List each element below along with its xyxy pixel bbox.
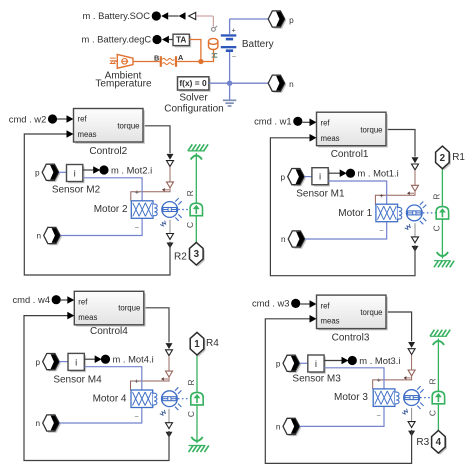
dashed shaft coupling motor 1 (423, 212, 436, 214)
svg-text:p: p (289, 16, 294, 25)
svg-text:+: + (135, 188, 139, 197)
svg-text:cmd . w2: cmd . w2 (9, 113, 47, 124)
svg-text:R1: R1 (452, 152, 465, 163)
signal tag m.Battery.SOC (82, 10, 160, 21)
wire speed feedback to Control2 meas (24, 130, 170, 275)
signal tag cmd.w3 (252, 298, 300, 309)
wire sensor meas to tag m.Mot4.i (84, 355, 110, 364)
svg-text:Configuration: Configuration (164, 103, 223, 114)
ambient temperature source block (117, 54, 133, 68)
svg-text:m . Mot4.i: m . Mot4.i (113, 354, 154, 365)
wire sensor meas to tag m.Mot2.i (83, 165, 109, 174)
svg-text:C: C (185, 222, 195, 228)
wire p to Sensor M4 (59, 361, 68, 363)
svg-text:i: i (315, 359, 317, 370)
svg-text:m . Battery.degC: m . Battery.degC (82, 34, 152, 45)
svg-text:R: R (427, 378, 437, 384)
svg-text:p: p (276, 360, 281, 369)
signal tag cmd.w4 (12, 294, 60, 305)
svg-text:n: n (36, 419, 41, 428)
svg-text:+: + (231, 26, 235, 35)
svg-text:p: p (36, 358, 41, 367)
wire battery positive to port p (230, 18, 269, 20)
propeller connector hexagon 2 (436, 146, 451, 170)
mechanical rotational reference (motor 4) (189, 437, 209, 452)
dashed shaft coupling motor 3 (420, 397, 432, 399)
label Ambient Temperature (95, 70, 152, 89)
wire converter to Motor 1 torque port (375, 191, 415, 204)
connection port p (motor 4) (43, 354, 61, 372)
wire Control2 torque to converter (145, 126, 170, 153)
thermal wire ambient to conduction B (133, 61, 160, 63)
wire junction to electrical reference (229, 83, 231, 100)
svg-text:m . Battery.SOC: m . Battery.SOC (82, 10, 150, 21)
svg-text:torque: torque (360, 125, 382, 134)
svg-text:1: 1 (194, 339, 200, 350)
svg-text:torque: torque (360, 308, 382, 317)
svg-text:cmd . w3: cmd . w3 (252, 298, 290, 309)
wire converter to Motor 2 torque port (131, 188, 170, 201)
temperature sensor block TA (173, 34, 191, 47)
ps-simulink converter arrows (speed) (166, 409, 173, 438)
label Solver Configuration (164, 93, 223, 115)
wire Control1 torque to converter (388, 130, 415, 157)
svg-text:Control1: Control1 (331, 149, 369, 160)
wheel-axle block (motor 2) (190, 203, 202, 216)
svg-text:Solver: Solver (179, 93, 208, 104)
signal tag cmd.w2 (9, 113, 57, 124)
svg-text:ref: ref (78, 298, 88, 307)
svg-text:B: B (154, 54, 159, 63)
svg-text:Temperature: Temperature (95, 79, 152, 90)
svg-text:–: – (377, 412, 381, 419)
connection port n (motor 1) (288, 231, 306, 249)
svg-text:p: p (35, 169, 40, 178)
wire sensor to Motor 4 positive terminal (84, 367, 142, 391)
wire cmd to Control4 ref (61, 296, 75, 304)
motor speed port marker w (405, 224, 412, 230)
current sensor block Sensor M4 (68, 353, 86, 372)
simulink-ps converter arrows (torque) (408, 342, 415, 376)
motor U4 (dc motor icon) (131, 387, 181, 410)
controller block Control2 (74, 109, 145, 144)
wire cmd to Control2 ref (57, 115, 73, 123)
svg-text:Motor 1: Motor 1 (338, 208, 372, 219)
wire solver to port n (209, 82, 269, 84)
controller block Control1 (317, 112, 388, 147)
svg-text:torque: torque (118, 304, 140, 313)
current sensor block Sensor M2 (67, 165, 85, 184)
mechanical rotational reference (motor 3) (430, 330, 450, 345)
svg-text:Sensor M2: Sensor M2 (52, 185, 101, 196)
electrical reference ground (223, 100, 236, 106)
wire Control4 torque to converter (146, 308, 169, 343)
svg-text:R: R (186, 379, 196, 385)
svg-text:m . Mot1.i: m . Mot1.i (358, 168, 399, 179)
svg-text:n: n (281, 235, 286, 244)
svg-text:i: i (319, 172, 321, 183)
connection port p (top) (268, 11, 286, 29)
wire n to Motor 3 negative terminal (300, 406, 384, 426)
svg-text:C: C (431, 225, 441, 231)
ps-simulink converter arrows (speed) (412, 223, 419, 252)
connection port p (motor 1) (288, 169, 306, 187)
svg-text:TA: TA (176, 34, 186, 44)
svg-text:meas: meas (321, 134, 340, 143)
wire sensor to Motor 2 positive terminal (83, 178, 142, 201)
motor speed port marker w (402, 409, 409, 415)
rotational shaft net (motor 1) (441, 169, 443, 259)
torque port marker (162, 188, 169, 192)
rotational shaft net (motor 2) (195, 153, 197, 242)
svg-text:Battery: Battery (242, 39, 274, 50)
dashed shaft coupling motor 2 (178, 209, 190, 211)
wire sensor to Motor 3 positive terminal (324, 368, 384, 390)
wire cmd to Control3 ref (300, 300, 316, 308)
svg-text:meas: meas (78, 313, 97, 322)
svg-text:f(x) = 0: f(x) = 0 (179, 78, 207, 88)
svg-text:R2: R2 (174, 252, 187, 263)
torque port marker (407, 191, 414, 195)
conductive heat transfer element B-A (161, 56, 176, 67)
connection port n (motor 2) (44, 227, 62, 245)
wire speed feedback to Control3 meas (265, 315, 411, 463)
simulink-ps converter arrows (torque) (167, 154, 174, 188)
wire cmd to Control1 ref (302, 119, 316, 127)
svg-text:Control4: Control4 (90, 326, 128, 337)
wire sensor meas to tag m.Mot1.i (328, 169, 355, 178)
motor speed port marker w (160, 221, 167, 227)
svg-text:Control2: Control2 (89, 146, 127, 157)
svg-text:ref: ref (321, 301, 331, 310)
wire p to Sensor M3 (300, 362, 308, 364)
svg-text:Motor 3: Motor 3 (334, 392, 368, 403)
svg-text:R: R (185, 190, 195, 196)
svg-text:+: + (379, 191, 383, 200)
simulink-ps converter arrows (torque) (412, 157, 419, 191)
svg-text:n: n (37, 232, 42, 241)
battery cell symbol (221, 19, 237, 83)
wheel-axle block (motor 1) (436, 207, 448, 220)
torque port marker (161, 377, 168, 381)
torque port marker (404, 376, 411, 380)
svg-text:2: 2 (440, 153, 446, 164)
wire SOC with converter arrows (161, 12, 213, 26)
ps-simulink converter arrows (speed) (408, 408, 415, 437)
orange thermal wire TA to junction (189, 40, 201, 62)
wire speed feedback to Control1 meas (270, 134, 415, 276)
svg-text:+: + (134, 377, 138, 386)
propeller connector hexagon 3 (190, 242, 205, 266)
svg-text:m . Mot2.i: m . Mot2.i (111, 164, 152, 175)
connection port n (motor 3) (283, 418, 301, 436)
svg-text:R: R (431, 194, 441, 200)
svg-text:ref: ref (78, 115, 88, 124)
current sensor block Sensor M3 (308, 355, 326, 374)
wire sensor to Motor 1 positive terminal (328, 181, 387, 205)
mechanical rotational reference (motor 2) (188, 144, 208, 159)
motor U1 (dc motor icon) (376, 202, 426, 225)
svg-text:i: i (75, 357, 77, 368)
thermal wire A to thermal mass (177, 49, 213, 61)
wire n to Motor 1 negative terminal (305, 221, 387, 239)
wire speed feedback to Control4 meas (24, 312, 169, 461)
svg-text:p: p (281, 173, 286, 182)
wire converter to Motor 3 torque port (373, 376, 412, 389)
svg-text:–: – (135, 224, 139, 231)
controller block Control4 (74, 291, 145, 326)
thermal mass block (cylinder) (209, 38, 218, 49)
svg-text:m . Mot3.i: m . Mot3.i (359, 355, 400, 366)
simulink-ps converter arrows (torque) (166, 343, 173, 377)
svg-text:4: 4 (436, 437, 442, 448)
electrical junction node (227, 81, 232, 86)
ps-simulink converter arrows (speed) (167, 220, 174, 249)
svg-text:Motor 4: Motor 4 (93, 393, 127, 404)
svg-text:Sensor M1: Sensor M1 (296, 188, 345, 199)
svg-text:ref: ref (321, 118, 331, 127)
wire p to Sensor M2 (59, 171, 67, 173)
svg-text:Motor 2: Motor 2 (94, 204, 128, 215)
svg-text:–: – (380, 228, 384, 235)
wheel-axle block (motor 3) (432, 391, 444, 404)
svg-text:cmd . w4: cmd . w4 (12, 294, 50, 305)
svg-text:Control3: Control3 (332, 333, 370, 344)
svg-text:R4: R4 (206, 338, 219, 349)
wire p to Sensor M1 (304, 176, 312, 178)
rotational shaft net (motor 3) (437, 339, 439, 431)
svg-text:meas: meas (78, 130, 97, 139)
rotational shaft net (motor 4) (196, 355, 198, 443)
svg-text:torque: torque (117, 122, 139, 131)
svg-text:C: C (186, 411, 196, 417)
wire degC to TA block (162, 36, 173, 44)
mechanical rotational reference (motor 1) (434, 252, 454, 267)
wire converter to Motor 4 torque port (131, 377, 170, 390)
signal tag m.Battery.degC (82, 34, 162, 45)
svg-text:n: n (289, 80, 294, 89)
connection port p (motor 2) (42, 164, 60, 182)
wire n to Motor 2 negative terminal (60, 218, 142, 236)
wire Control3 torque to converter (388, 312, 412, 341)
svg-text:Sensor M4: Sensor M4 (53, 375, 102, 386)
motor speed port marker w (160, 410, 167, 416)
svg-text:cmd . w1: cmd . w1 (254, 116, 292, 127)
propeller connector hexagon 4 (432, 431, 447, 455)
thermal reference hatch of ambient source (110, 58, 118, 63)
propeller connector hexagon 1 (190, 332, 205, 356)
svg-text:C: C (427, 410, 437, 416)
svg-text:R3: R3 (416, 437, 429, 448)
svg-text:n: n (276, 423, 281, 432)
signal tag cmd.w1 (254, 116, 302, 127)
connection port n (motor 4) (43, 415, 61, 433)
connection port n (top) (268, 75, 286, 93)
controller block Control3 (317, 295, 388, 330)
svg-text:3: 3 (194, 249, 200, 260)
svg-text:meas: meas (321, 317, 340, 326)
svg-text:–: – (232, 53, 236, 60)
motor U2 (dc motor icon) (131, 198, 181, 221)
thermal port marker H (212, 54, 218, 58)
unconnected node (battery SOC port) (212, 26, 218, 31)
svg-text:+: + (377, 376, 381, 385)
wire sensor meas to tag m.Mot3.i (324, 356, 357, 365)
wire n to Motor 4 negative terminal (59, 407, 142, 423)
svg-text:–: – (135, 413, 139, 420)
svg-text:i: i (74, 169, 76, 180)
motor U3 (dc motor icon) (373, 386, 423, 409)
svg-text:Sensor M3: Sensor M3 (292, 374, 341, 385)
solver configuration block f(x)=0 (178, 77, 211, 92)
wheel-axle block (motor 4) (191, 392, 203, 405)
connection port p (motor 3) (283, 355, 301, 373)
dashed shaft coupling motor 4 (178, 398, 191, 400)
thermal junction node (198, 59, 203, 64)
current sensor block Sensor M1 (312, 168, 330, 187)
